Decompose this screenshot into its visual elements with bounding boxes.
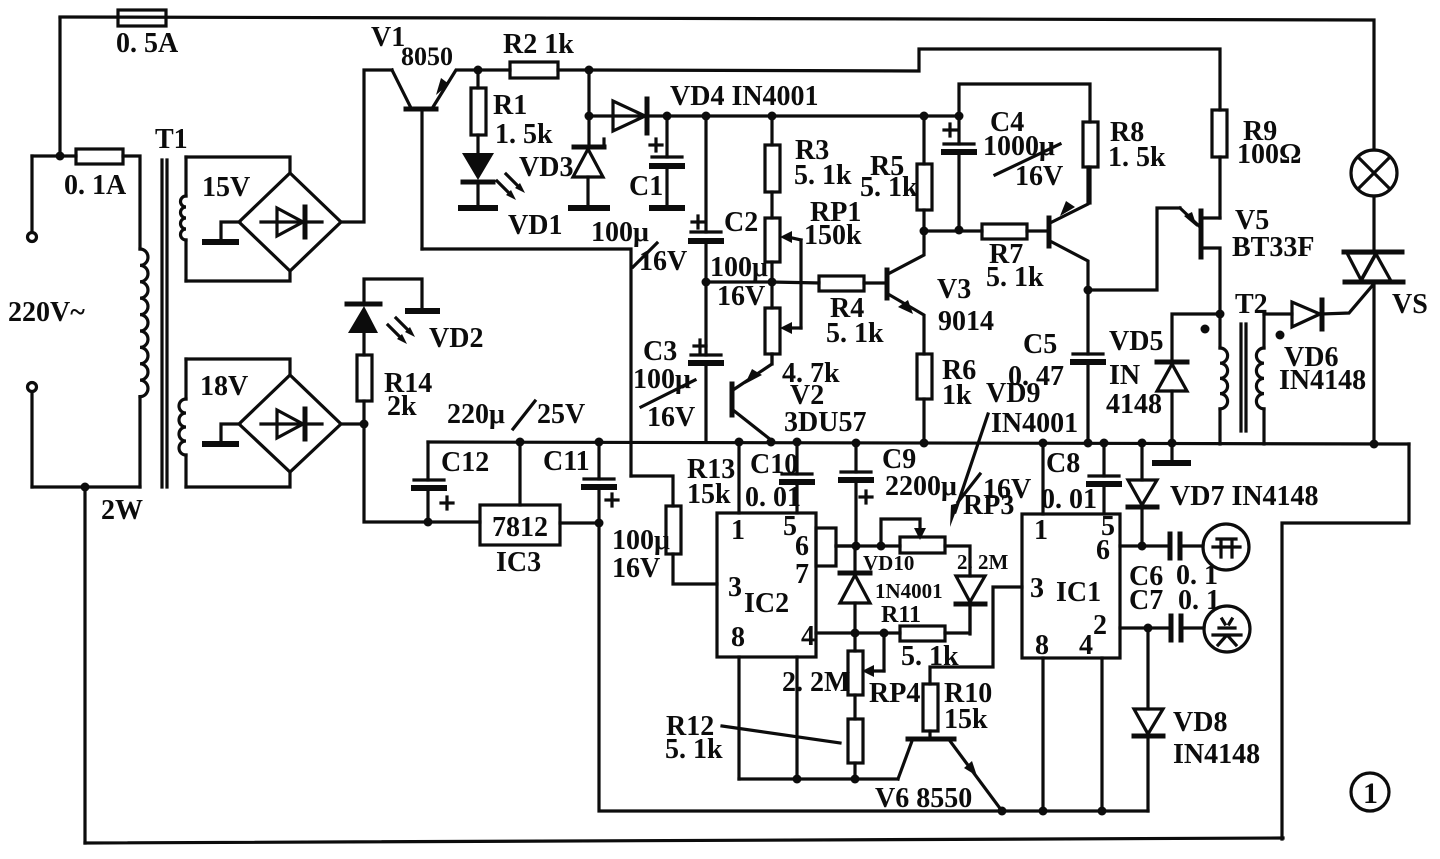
- svg-text:100Ω: 100Ω: [1237, 139, 1301, 170]
- svg-text:IN4148: IN4148: [1279, 365, 1366, 396]
- LED VD1: [461, 153, 562, 241]
- node V4 collector junction: [1084, 286, 1093, 295]
- node R2 left junction: [474, 66, 483, 75]
- svg-text:3DU57: 3DU57: [784, 407, 866, 438]
- wire R13 feed: [631, 476, 673, 506]
- bridge 1 inner diode: [261, 207, 322, 237]
- node C5 bottom: [1084, 439, 1093, 448]
- node divider junction: [768, 278, 777, 287]
- svg-text:C7: C7: [1129, 585, 1163, 616]
- capacitor C3: [633, 282, 721, 442]
- capacitor C12 220u/25V: [414, 399, 585, 522]
- capacitor C8 0.01: [1041, 443, 1119, 515]
- resistor R10 15k: [923, 587, 1022, 737]
- svg-text:VD10: VD10: [863, 551, 914, 575]
- terminal 220V upper: [28, 156, 37, 242]
- resistor R5 5.1k: [860, 116, 932, 231]
- node C4 bottom junction: [955, 226, 964, 235]
- svg-text:R1: R1: [493, 90, 527, 121]
- svg-text:V6 8550: V6 8550: [875, 783, 972, 814]
- svg-text:6: 6: [795, 531, 809, 562]
- node C2 top: [702, 112, 711, 121]
- node C10 top: [793, 438, 802, 447]
- node C1 top: [663, 112, 672, 121]
- svg-text:C2: C2: [724, 207, 758, 238]
- node C2 bottom junction: [702, 278, 711, 287]
- triac VS: [1344, 252, 1428, 443]
- wire R5 bottom to R7: [924, 229, 982, 232]
- node R2 right junction: [585, 66, 594, 75]
- svg-text:1k: 1k: [942, 380, 972, 411]
- wire right outline step: [1282, 444, 1409, 839]
- wire fuse to T1 primary: [123, 156, 140, 249]
- svg-text:VD4 IN4001: VD4 IN4001: [670, 81, 819, 112]
- svg-text:C3: C3: [643, 336, 677, 367]
- svg-text:5. 1k: 5. 1k: [860, 172, 918, 203]
- svg-text:2200μ: 2200μ: [885, 471, 957, 502]
- diode VD8 IN4148: [1134, 628, 1260, 811]
- resistor R3 5.1k: [765, 116, 852, 218]
- svg-text:1: 1: [1363, 777, 1378, 810]
- node VD4 end corner: [955, 112, 964, 121]
- svg-text:VD3: VD3: [519, 152, 573, 183]
- IC2 box: [717, 511, 816, 657]
- transformer T1 primary winding: [140, 249, 148, 397]
- svg-text:7: 7: [795, 559, 809, 590]
- wire R2 to step: [589, 49, 1220, 110]
- IC1 box: [1022, 511, 1120, 661]
- terminal 220V lower: [28, 383, 37, 488]
- transistor V4: [1049, 167, 1088, 290]
- wire IC2 pin4 row: [816, 631, 900, 634]
- wire bridge2 output node: [341, 422, 364, 425]
- resistor R6 1k: [917, 354, 976, 443]
- svg-text:1. 5k: 1. 5k: [1108, 142, 1166, 173]
- capacitor C6 0.1: [1129, 534, 1218, 592]
- bridge 2 inner diode: [261, 409, 322, 439]
- diode VD5 IN4148: [1106, 326, 1187, 443]
- lamp: [1351, 150, 1397, 252]
- switch button guan: [1204, 606, 1250, 652]
- svg-text:4: 4: [1079, 630, 1093, 661]
- wire lower terminal to 2W node: [32, 485, 140, 488]
- capacitor C2: [691, 116, 768, 312]
- svg-text:VD5: VD5: [1109, 326, 1163, 357]
- svg-text:VD2: VD2: [429, 323, 483, 354]
- node pin4 junctions: [851, 629, 860, 638]
- diode VD6 IN4148: [1264, 286, 1372, 396]
- phototransistor V2 3DU57: [732, 354, 866, 440]
- capacitor C4 1000u/16V: [944, 107, 1063, 230]
- svg-text:100μ: 100μ: [710, 252, 768, 283]
- LED VD2: [347, 279, 483, 355]
- wire bridge2 to input line: [364, 424, 480, 522]
- node junction 2W: [81, 483, 90, 492]
- regulator IC3 7812: [480, 442, 599, 578]
- node VD5 bottom: [1168, 439, 1177, 448]
- svg-text:3: 3: [728, 572, 742, 603]
- zener diode VD3: [519, 70, 607, 208]
- svg-text:T1: T1: [155, 124, 188, 155]
- resistor R11 5.1k: [881, 602, 970, 672]
- svg-text:C5: C5: [1023, 329, 1057, 360]
- svg-text:2. 2M: 2. 2M: [957, 550, 1009, 574]
- svg-text:VD1: VD1: [508, 210, 562, 241]
- fuse 0.1A: [64, 149, 127, 201]
- wire bottom rail IC2: [739, 777, 898, 780]
- svg-text:150k: 150k: [804, 220, 862, 251]
- node 7812 top junction: [516, 438, 525, 447]
- svg-text:R2 1k: R2 1k: [503, 29, 574, 60]
- transformer T2 core: [1241, 324, 1246, 431]
- svg-text:0. 5A: 0. 5A: [116, 28, 179, 59]
- node IC2 pin1 top: [735, 438, 744, 447]
- svg-text:IC1: IC1: [1056, 577, 1101, 608]
- node C7 junction: [1144, 624, 1153, 633]
- node C8 top: [1100, 439, 1109, 448]
- svg-text:1N4001: 1N4001: [875, 579, 943, 603]
- svg-text:15k: 15k: [687, 479, 731, 510]
- node rail junctions right: [1039, 807, 1048, 816]
- svg-text:5. 1k: 5. 1k: [986, 262, 1044, 293]
- wire C2 to divider node: [706, 280, 772, 283]
- transformer T1 15V secondary winding: [181, 157, 186, 281]
- resistor R14 2k: [357, 355, 432, 424]
- svg-text:IN4001: IN4001: [991, 408, 1078, 439]
- svg-text:16V: 16V: [717, 281, 765, 312]
- svg-text:8: 8: [731, 622, 745, 653]
- svg-text:2W: 2W: [101, 495, 143, 526]
- IC2 pin5-6 side block: [816, 528, 855, 566]
- potentiometer RP1 150k: [765, 197, 862, 328]
- svg-text:16V: 16V: [1015, 161, 1063, 192]
- svg-text:2k: 2k: [387, 391, 417, 422]
- svg-text:5. 1k: 5. 1k: [794, 160, 852, 191]
- svg-text:16V: 16V: [647, 402, 695, 433]
- svg-text:IC2: IC2: [744, 588, 789, 619]
- svg-text:1000μ: 1000μ: [983, 131, 1055, 162]
- wire left drop to fuse 0.1A row: [58, 18, 61, 156]
- svg-text:VD7 IN4148: VD7 IN4148: [1170, 481, 1319, 512]
- wire VD4 end up and over to R8: [959, 84, 1090, 122]
- svg-text:C1: C1: [629, 171, 663, 202]
- potentiometer RP3: [881, 490, 1014, 576]
- fuse 0.5A: [116, 10, 179, 59]
- capacitor C1: [591, 116, 687, 277]
- svg-text:15V: 15V: [202, 172, 250, 203]
- node C12 bottom: [424, 518, 433, 527]
- wire top rail from fuse to lamp: [60, 17, 1374, 150]
- resistor R8 1.5k: [1083, 117, 1166, 203]
- node IC1 pin1 top: [1039, 439, 1048, 448]
- main bus wire: [428, 442, 1409, 444]
- transformer T2 primary winding: [1201, 289, 1268, 444]
- svg-text:C11: C11: [543, 446, 590, 477]
- diode VD9: [956, 550, 1009, 634]
- capacitor C5 0.47: [1008, 290, 1103, 443]
- node VD7 bottom junction: [1138, 542, 1147, 551]
- wire IC1 pin1: [1041, 443, 1044, 514]
- node R3 top: [768, 112, 777, 121]
- unijunction transistor V5 BT33F: [1180, 205, 1314, 314]
- transistor V6 8550: [875, 739, 1002, 814]
- resistor R4 5.1k: [772, 276, 884, 349]
- wire VD5 branch: [1172, 314, 1220, 361]
- bridge 1 AC mark: [205, 222, 240, 242]
- svg-text:V3: V3: [937, 274, 971, 305]
- svg-text:C10: C10: [750, 449, 798, 480]
- switch button kai: [1203, 524, 1249, 570]
- svg-text:1: 1: [731, 515, 745, 546]
- svg-text:VD8: VD8: [1173, 707, 1227, 738]
- svg-text:2: 2: [1093, 610, 1107, 641]
- svg-text:4: 4: [801, 621, 815, 652]
- transistor V1 8050: [392, 70, 478, 249]
- svg-text:1: 1: [1034, 515, 1048, 546]
- wire IC1 pin8 pin4 bottom drops: [1041, 658, 1044, 811]
- bridge rectifier 2 diamond: [239, 375, 341, 472]
- node R6 bottom bus junction: [920, 439, 929, 448]
- node rail junctions: [793, 775, 802, 784]
- node R5 top: [920, 112, 929, 121]
- wire 15V box bottom: [186, 271, 290, 281]
- svg-text:8: 8: [1035, 630, 1049, 661]
- node C11 top: [595, 438, 604, 447]
- capacitor C11 100u/16V: [543, 442, 670, 584]
- svg-text:15k: 15k: [944, 704, 988, 735]
- node V2 emitter bus junction: [767, 438, 776, 447]
- wire left border down: [83, 487, 86, 843]
- node triac bottom bus junction: [1370, 440, 1379, 449]
- wire bottom border: [85, 838, 1283, 843]
- wire 18V box top: [186, 359, 290, 375]
- node T2 primary top junction: [1216, 310, 1225, 319]
- transformer T1 18V secondary winding: [179, 359, 186, 487]
- resistor R1 1.5k: [471, 70, 553, 153]
- capacitor C9 2200u/16V: [841, 443, 1031, 546]
- wire T1 primary bottom: [138, 397, 141, 487]
- svg-text:IN4148: IN4148: [1173, 739, 1260, 770]
- svg-text:0. 1A: 0. 1A: [64, 170, 127, 201]
- svg-text:100μ: 100μ: [612, 525, 670, 556]
- node C9 top: [852, 439, 861, 448]
- node VD7 top: [1138, 439, 1147, 448]
- svg-text:100μ: 100μ: [633, 364, 691, 395]
- svg-text:RP4: RP4: [869, 678, 920, 709]
- wire 15V box top: [186, 157, 290, 173]
- svg-text:VS: VS: [1392, 289, 1428, 320]
- node R5 bottom junction: [920, 227, 929, 236]
- svg-text:16V: 16V: [612, 553, 660, 584]
- svg-text:7812: 7812: [492, 512, 548, 543]
- svg-text:0. 01: 0. 01: [1041, 484, 1097, 515]
- resistor R7 5.1k: [982, 224, 1048, 293]
- wire lower-left outline: [599, 523, 1148, 811]
- node V6 emitter rail junction: [998, 807, 1007, 816]
- svg-text:220V~: 220V~: [8, 297, 85, 328]
- wire V1 base run to R13 column: [422, 249, 631, 476]
- transistor V3 9014: [864, 231, 994, 354]
- bridge rectifier 1 diamond: [239, 173, 341, 271]
- bridge 2 AC mark: [205, 424, 240, 444]
- wire IC2 pin1: [737, 442, 740, 513]
- svg-text:R11: R11: [881, 602, 921, 628]
- node VD3 top junction: [585, 112, 594, 121]
- potentiometer RP4 2.2M: [782, 633, 920, 709]
- diode VD7 IN4148: [1128, 443, 1319, 546]
- svg-text:C8: C8: [1046, 448, 1080, 479]
- wire V4 collector to V5 emitter: [1088, 208, 1180, 290]
- svg-text:8050: 8050: [401, 42, 453, 71]
- transformer T2 secondary winding: [1256, 314, 1284, 444]
- node junction at 60,156: [56, 152, 65, 161]
- svg-text:IN: IN: [1109, 360, 1140, 391]
- svg-text:BT33F: BT33F: [1232, 232, 1314, 263]
- ground mark below bus: [1155, 443, 1188, 463]
- svg-text:18V: 18V: [200, 371, 248, 402]
- transformer T1 core: [162, 160, 167, 487]
- resistor R9 100ohm: [1212, 110, 1301, 218]
- wire IC1 pin6 row: [1120, 544, 1166, 547]
- svg-text:9014: 9014: [938, 306, 994, 337]
- svg-text:C12: C12: [441, 447, 489, 478]
- svg-text:25V: 25V: [537, 399, 585, 430]
- svg-text:IC3: IC3: [496, 547, 541, 578]
- wire bridge1 output to V1 collector: [341, 70, 392, 222]
- svg-text:4148: 4148: [1106, 389, 1162, 420]
- resistor 4.7k: [765, 282, 840, 389]
- svg-text:1. 5k: 1. 5k: [495, 119, 553, 150]
- resistor R2: [478, 29, 589, 78]
- wire 18V box bottom: [186, 472, 290, 487]
- circled figure 1: [1351, 773, 1389, 811]
- svg-text:0. 01: 0. 01: [745, 482, 801, 513]
- diode VD10 1N4001: [840, 546, 943, 633]
- svg-text:5. 1k: 5. 1k: [826, 318, 884, 349]
- wire pin6 row: [836, 544, 900, 547]
- resistor R13 15k: [666, 454, 735, 584]
- svg-text:16V: 16V: [639, 246, 687, 277]
- wire IC2 pin8 and pin7 bottom drops: [737, 657, 740, 779]
- svg-text:3: 3: [1030, 573, 1044, 604]
- svg-text:220μ: 220μ: [447, 399, 505, 430]
- svg-text:5. 1k: 5. 1k: [665, 734, 723, 765]
- capacitor C10 0.01: [745, 442, 812, 513]
- wire IC1 pin2 row: [1120, 626, 1167, 629]
- svg-text:6: 6: [1096, 535, 1110, 566]
- node C11 bottom junction: [595, 519, 604, 528]
- label VD9 with pointer: [950, 378, 1078, 527]
- svg-text:RP3: RP3: [963, 490, 1014, 521]
- capacitor C7 0.1: [1129, 585, 1220, 640]
- svg-text:2. 2M: 2. 2M: [782, 667, 850, 698]
- resistor R12 5.1k: [665, 695, 863, 779]
- wire fuse row: [32, 154, 76, 157]
- node pin6 row junctions: [852, 542, 861, 551]
- svg-text:0. 47: 0. 47: [1008, 361, 1064, 392]
- diode VD4 IN4001: [589, 81, 959, 133]
- svg-text:100μ: 100μ: [591, 217, 649, 248]
